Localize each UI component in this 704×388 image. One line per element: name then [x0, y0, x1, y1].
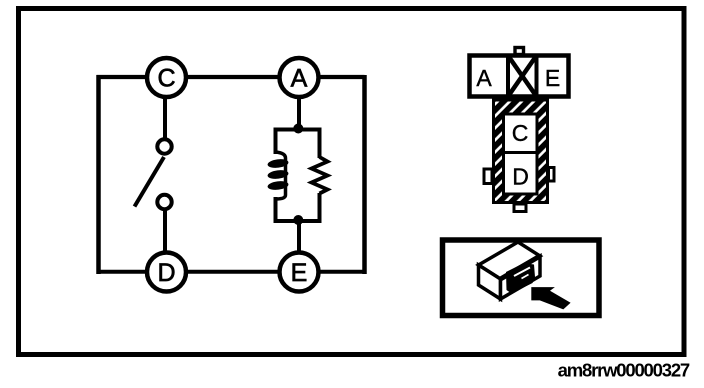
resistor R1 branch [312, 128, 328, 224]
wire left vertical [96, 75, 101, 274]
relay connector socket [506, 263, 535, 294]
node D [147, 253, 186, 292]
switch blade [135, 157, 165, 207]
node A [280, 58, 319, 97]
connector tab left [484, 169, 492, 184]
connector body hatched [494, 100, 548, 203]
relay right face [501, 256, 541, 299]
arrow pointer [531, 287, 570, 309]
connector divider left [506, 54, 510, 99]
switch lower contact [157, 195, 171, 209]
relay callout box [443, 240, 600, 316]
relay left face [479, 265, 501, 299]
wire parallel bottom bar [274, 219, 322, 223]
connector tab right [549, 168, 555, 182]
connector top row outline [470, 56, 569, 97]
svg-text:E: E [545, 65, 560, 91]
inductor L1 coil branch [267, 128, 289, 224]
junction dot bottom [293, 215, 303, 225]
wire bottom horizontal [97, 270, 365, 274]
svg-text:D: D [512, 164, 529, 190]
wire top horizontal [97, 75, 365, 79]
wire junction to E [297, 219, 301, 253]
node E [280, 253, 319, 292]
connector X mark [508, 56, 537, 97]
wire C to switch [163, 99, 167, 140]
svg-text:C: C [157, 65, 175, 93]
svg-text:D: D [157, 259, 175, 287]
junction dot top [293, 124, 303, 134]
svg-text:E: E [291, 259, 308, 287]
relay top face [479, 242, 541, 279]
wire A to coil junction [297, 99, 301, 131]
svg-text:A: A [291, 65, 308, 93]
connector divider right [535, 54, 539, 99]
svg-text:A: A [476, 65, 492, 91]
node C [147, 58, 186, 97]
relay front top edge [501, 256, 541, 279]
connector tab bottom [514, 204, 526, 212]
wire right vertical [362, 75, 367, 274]
svg-text:am8rrw00000327: am8rrw00000327 [558, 360, 690, 381]
wire parallel top bar [274, 128, 322, 132]
switch upper contact [157, 139, 171, 153]
svg-text:C: C [512, 120, 529, 146]
wire switch to D [163, 210, 167, 251]
connector top tab [515, 48, 524, 55]
